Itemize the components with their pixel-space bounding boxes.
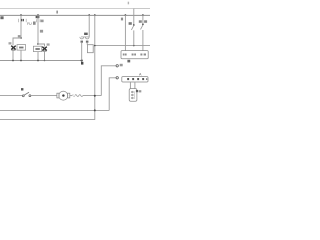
label VD1 [9,42,12,44]
wire socket feed [88,15,90,37]
wire meter feed 2 upper [142,15,144,24]
diode VD1 [11,46,16,50]
label XS socket [84,33,88,35]
switch S [22,92,31,96]
wire box1 down [20,50,22,60]
wire branch split right [38,44,45,47]
wire up to terminal 1 [101,66,116,96]
meter seal tab [127,60,130,63]
terminal strip box [122,77,148,82]
wire branch1 upper [20,15,22,38]
wire L main top line [0,14,150,16]
wire lamp row [0,95,22,97]
label QS1 [121,18,123,21]
wire N bottom line [0,109,109,111]
svg-text:FU: FU [27,22,32,26]
fuse FU1 [18,19,26,22]
switch SA mid [131,24,134,30]
wire to lamp [31,95,57,97]
wire switch down to N mid [133,30,135,45]
node dot lamp net [94,95,96,97]
node tick label mid [56,11,58,14]
wire diode2 down [44,51,46,61]
wire plug left down [81,43,83,61]
label FU2 left [33,22,36,25]
label right of appliance [136,90,138,92]
wire N mid line [95,45,150,47]
socket XS bar and contacts [80,37,89,39]
switch SA right [141,24,144,30]
wire to junction [83,95,102,97]
wire strip to appliance left [129,82,131,89]
node junction B2 [37,43,39,45]
node junction dot socket feed [88,14,90,16]
label S switch [21,88,23,90]
diode VD2 [42,47,47,51]
node label left [0,16,3,19]
appliance box [129,89,137,102]
resistor box R1 [17,45,26,51]
wire branch split left [13,38,21,45]
wire up to terminal 2 [109,78,116,111]
node junction dot A2 [37,14,39,16]
wire meter feed 2 lower [142,30,144,51]
node dot meter feed 1 [125,14,127,16]
label terminal 1 [120,64,123,67]
fuse FU2 [36,19,40,22]
label dark at A2 [36,16,40,18]
wire plug right short [86,43,88,45]
wire L bottom line [0,118,95,120]
node junction dot main vertical [94,14,96,16]
wire branch2 [37,15,39,44]
node tick label top-right [128,2,129,5]
node dots on bus [12,60,14,62]
wire bus mid-left [0,60,82,62]
label SA mid [129,22,132,25]
label small above junction B1 [18,35,21,37]
cord squiggle [75,95,83,97]
label VD2 [47,43,50,45]
node dot on N mid [94,45,96,47]
node junction dot A1 [20,14,22,16]
lamp EL [57,91,70,100]
label QS2 [139,20,142,23]
wire diode1 down [12,50,14,61]
appliance loop box [87,45,93,53]
connector marks [72,94,75,97]
wire lamp right [70,95,73,97]
label KM2 [40,30,43,33]
node junction B1 [20,37,22,39]
node dot meter feed 2 [142,14,144,16]
terminal circle 1 [116,65,118,67]
wire N top faint line [0,8,134,10]
resistor box R2 [33,46,41,51]
wire strip to appliance right [134,82,136,89]
node dot on N bottom [94,109,96,111]
terminal circle 2 [116,77,118,79]
meter box kWh [121,51,148,59]
wire meter feed 1 [124,15,126,51]
plug XP bars [81,41,89,43]
label FU2 right [41,20,44,23]
wire box2 down [37,52,39,61]
wire long vertical [94,15,96,120]
wire from N top [133,9,135,25]
label under bus end [81,62,83,65]
